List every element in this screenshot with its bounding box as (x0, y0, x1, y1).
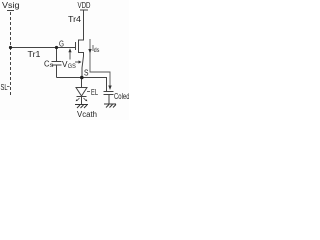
node junction dot S (80, 76, 84, 80)
svg-text:SL: SL (1, 83, 8, 92)
svg-text:Tr1: Tr1 (28, 49, 41, 59)
svg-text:VDD: VDD (78, 0, 91, 10)
svg-text:G: G (59, 40, 64, 49)
wire source node line (57, 78, 107, 92)
label EL leader dash (87, 91, 90, 93)
ground under Coled (104, 104, 116, 108)
wire VDD drain lead (79, 10, 84, 40)
annotation VGS right arrow (75, 61, 79, 63)
diode EL cathode bar (77, 96, 87, 98)
wire SL dashed vertical line (10, 12, 12, 97)
svg-text:EL: EL (91, 88, 98, 97)
wire Cs top lead (56, 48, 58, 62)
capacitor Coled plates (104, 91, 114, 93)
LED emission arrow left (77, 98, 80, 101)
wire Coled bottom lead (108, 95, 110, 104)
label SL leader dash (7, 86, 10, 88)
svg-text:S: S (84, 69, 89, 78)
arrowhead into Coled (108, 86, 111, 91)
capacitor Cs plates (52, 61, 62, 63)
svg-text:Vcath: Vcath (77, 109, 97, 119)
node Vsig terminal bar (7, 10, 14, 12)
background (0, 0, 129, 120)
transistor Tr4 gate bar (75, 42, 77, 50)
svg-text:GS: GS (68, 64, 76, 70)
wire EL anode lead (81, 78, 83, 88)
wire Tr4 source lead to node S (79, 53, 84, 78)
ground Vcath under EL (75, 105, 88, 109)
diode EL triangle (76, 88, 87, 97)
node junction dot G (55, 46, 58, 49)
wire EL cathode lead (81, 97, 83, 105)
node VDD terminal bar (80, 9, 88, 11)
annotation VGS up arrow (69, 51, 71, 60)
wire Cs bottom lead (56, 65, 58, 78)
svg-text:Coled: Coled (114, 92, 129, 101)
transistor Tr4 channel bar (78, 40, 80, 54)
arrowhead Ids mid-path (88, 49, 91, 54)
svg-text:s: s (50, 62, 55, 69)
current path Ids annotation (90, 39, 110, 88)
svg-text:ds: ds (94, 47, 100, 54)
svg-text:Vsig: Vsig (2, 0, 20, 10)
node junction dot SL/gate (9, 46, 12, 49)
LED emission arrow right (84, 98, 87, 101)
wire gate line from SL to gate (10, 47, 75, 49)
svg-text:Tr4: Tr4 (68, 14, 81, 24)
